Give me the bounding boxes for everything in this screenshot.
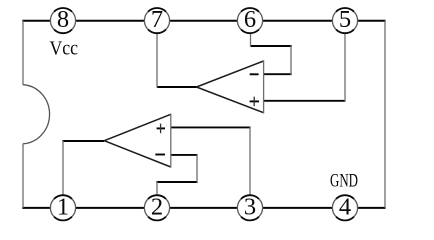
pin 6 circle [237,8,262,33]
svg-text:8: 8 [57,6,69,33]
wire pin2 step horizontal lower [156,181,197,183]
IC package bottom edge [22,207,385,209]
IC package left edge upper [22,21,24,85]
op-amp triangles [104,61,263,167]
svg-text:Vcc: Vcc [50,37,79,59]
op-amp U2 minus sign [155,154,165,156]
wire U2 inverting input horizontal [170,154,198,156]
IC package left edge lower [22,144,24,208]
wire pin2 step vertical [196,154,198,182]
wire pin6 step horizontal upper [251,45,292,47]
op-amp U2 lower diagonal [104,141,171,167]
IC package notch [23,85,50,144]
pin 2 circle [144,195,169,220]
wire pin3 vertical [249,127,251,196]
op-amp U2 upper diagonal [104,114,171,140]
op-amp U2 body fill [104,114,171,167]
wire op-amp U2 output horizontal [62,140,104,142]
op-amp U1 plus sign [250,100,259,102]
horizontal lines: dark/thick [22,21,385,208]
svg-text:4: 4 [339,193,351,220]
svg-text:6: 6 [244,6,256,33]
wire pin5 vertical [344,33,346,102]
op-amp U1 lower diagonal [197,87,264,113]
op-amp U2 plus sign [157,127,165,129]
pin circles [50,8,357,220]
pin 5 circle [332,8,357,33]
op-amp U1 right edge [263,60,265,113]
wire pin7 vertical [156,33,158,88]
pin 7 circle [144,8,169,33]
wire U1 non-inverting input horizontal [263,100,346,102]
svg-text:5: 5 [339,6,351,33]
wire pin1 vertical [62,141,64,196]
pin 1 circle [50,195,75,220]
op-amp U1 minus sign [250,73,259,75]
wire pin6 vertical [250,33,252,47]
op-amp input polarity signs [155,74,259,154]
wire op-amp U1 output horizontal [157,86,197,88]
pin 3 circle [237,195,262,220]
IC package top edge [22,20,385,22]
svg-text:1: 1 [57,193,69,220]
pin 4 circle [332,195,357,220]
svg-text:7: 7 [151,6,163,33]
svg-text:2: 2 [151,193,163,220]
svg-text:GND: GND [330,171,358,192]
wire U1 inverting input horizontal [263,73,292,75]
op-amp U1 upper diagonal [197,61,264,87]
op-amp U1 body fill [197,61,264,113]
op-amp U2 right edge [170,114,172,168]
svg-text:3: 3 [244,193,256,220]
wire pin6 step vertical [290,46,292,75]
IC package right edge [384,21,386,208]
wire U2 non-inverting input horizontal [170,126,251,128]
vertical lines: gray/thin [23,21,385,208]
pin 8 circle [50,8,75,33]
wire pin2 vertical [156,182,158,196]
